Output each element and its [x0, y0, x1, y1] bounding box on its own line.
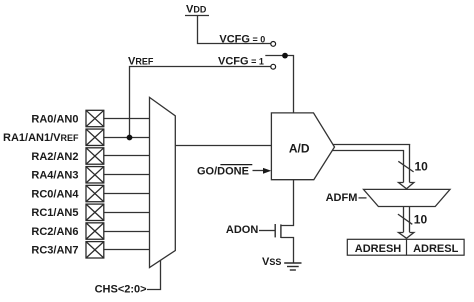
wire pin RC1 row: [104, 212, 150, 214]
wire transistor source to VSS ground: [281, 238, 294, 263]
arrowhead hollow into registers: [399, 233, 414, 239]
wire pin RA4 row: [104, 174, 150, 176]
bus slash 10 lower: [398, 214, 412, 224]
pin box RC2/AN6: [86, 223, 104, 239]
arrowhead GO/DONE: [263, 168, 271, 174]
wire pin RC0 row: [104, 193, 150, 195]
pin box RA1/AN1/VREF: [86, 129, 104, 145]
pin box RA2/AN2: [86, 148, 104, 164]
wire pin RC2 row: [104, 231, 150, 233]
ground VSS symbol: [284, 263, 301, 270]
svg-text:ADRESH: ADRESH: [355, 243, 402, 255]
junction dot VREF on RA1 wire: [127, 135, 133, 141]
svg-text:VSS: VSS: [262, 256, 281, 268]
arrowhead hollow into ADFM: [399, 183, 414, 189]
op-amp U1 A/D converter block: [271, 113, 334, 180]
wire pin RC3 row: [104, 249, 150, 251]
bus 10-bit from A/D to ADFM mux (hollow): [333, 145, 414, 189]
pin box RC1/AN5: [86, 204, 104, 220]
svg-text:ADRESL: ADRESL: [413, 243, 459, 255]
wire switch common rail to A/D VREF+ pin: [265, 56, 293, 113]
wire A/D bottom to transistor drain: [281, 180, 294, 226]
svg-text:RC2/AN6: RC2/AN6: [31, 226, 78, 238]
junction dot switch common rail: [282, 53, 288, 59]
svg-text:VDD: VDD: [186, 4, 207, 16]
wire ADON to transistor gate: [259, 230, 275, 232]
svg-text:RC3/AN7: RC3/AN7: [31, 245, 78, 257]
svg-text:RA1/AN1/VREF: RA1/AN1/VREF: [3, 132, 79, 144]
wire VREF net from label corner to switch SW2: [130, 67, 271, 138]
pin box RA4/AN3: [86, 167, 104, 183]
svg-text:ADON: ADON: [226, 224, 258, 236]
bus 10-bit from ADFM to result registers (hollow): [399, 207, 414, 239]
svg-text:10: 10: [414, 212, 428, 226]
register pair ADRESH ADRESL: [347, 239, 464, 255]
wire pin RA0 row: [104, 118, 150, 120]
switch SW2 contact circle VCFG=1: [271, 64, 276, 69]
transistor Q1 channel bar: [280, 224, 282, 238]
svg-text:VREF: VREF: [128, 55, 154, 67]
svg-text:RC1/AN5: RC1/AN5: [31, 207, 78, 219]
mux ADFM output format trapezoid: [364, 189, 451, 206]
svg-text:VCFG = 1: VCFG = 1: [218, 55, 264, 67]
bus slash 10 upper: [398, 161, 413, 172]
svg-text:CHS<2:0>: CHS<2:0>: [95, 284, 147, 296]
analog input mux: [150, 97, 176, 267]
svg-text:RC0/AN4: RC0/AN4: [31, 188, 79, 200]
power VDD vertical wire: [198, 16, 271, 44]
wire mux output to A/D input: [175, 145, 271, 147]
svg-text:RA2/AN2: RA2/AN2: [31, 151, 78, 163]
svg-text:10: 10: [415, 160, 429, 174]
svg-text:RA0/AN0: RA0/AN0: [31, 113, 78, 125]
pin box RC0/AN4: [86, 185, 104, 201]
wire pin RA1 row: [104, 137, 150, 139]
svg-text:RA4/AN3: RA4/AN3: [31, 170, 78, 182]
wire CHS control into mux: [147, 260, 161, 289]
svg-text:A/D: A/D: [289, 141, 310, 155]
transistor Q1 ADON pass gate bar: [274, 224, 276, 237]
wire GO/DONE into A/D: [253, 170, 266, 172]
pin labels column: [3, 113, 79, 256]
switch SW1 contact circle VCFG=0: [271, 42, 276, 47]
pin box RA0/AN0: [86, 110, 104, 126]
svg-text:ADFM: ADFM: [326, 192, 358, 204]
wire pin RA2 row: [104, 155, 150, 157]
power VDD rail bar: [185, 15, 209, 17]
svg-text:GO/DONE: GO/DONE: [197, 166, 249, 178]
pin box RC3/AN7: [86, 242, 104, 258]
svg-text:VCFG = 0: VCFG = 0: [219, 34, 265, 46]
input pin boxes column: [86, 110, 104, 258]
